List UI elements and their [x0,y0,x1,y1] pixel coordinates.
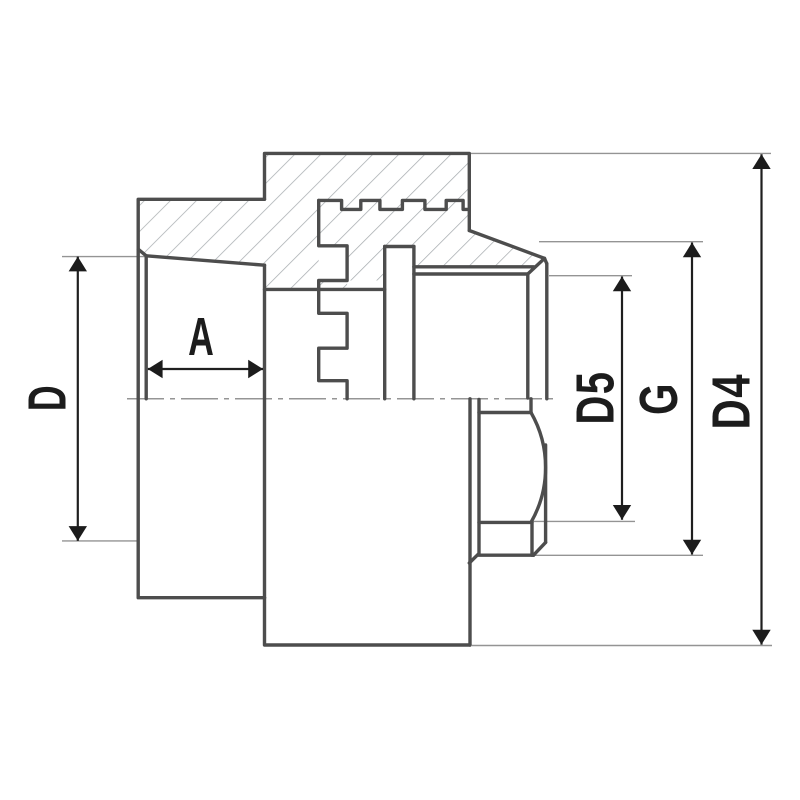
thread line upper [414,265,534,268]
groove strip cap [385,245,414,248]
svg-text:G: G [629,383,689,415]
svg-text:D4: D4 [702,373,762,430]
arrow D5 up [613,277,631,292]
thread line lower [414,272,528,275]
extension line D top [62,256,146,258]
hatch brass insert section [319,211,545,281]
hatch left socket wall [138,199,264,265]
extension line G top [539,241,703,243]
left socket bore chamfer [138,249,146,256]
arrow D5 down [613,505,631,520]
insert left knurl zigzag [319,200,347,398]
arrow A left [148,360,163,378]
body socket stop step [263,265,266,598]
insert top knurl teeth [319,200,470,209]
external thread end chamfer [534,542,546,555]
face corner chamfer [545,258,547,263]
extension line G bottom [535,554,703,556]
external hex facet top edge [479,411,531,414]
groove strip right edge [412,247,415,399]
arrow G down [683,540,701,555]
svg-text:D5: D5 [566,370,626,424]
extension line D4 bottom [472,645,772,647]
body chamfer diagonal [469,231,544,259]
arrow D4 up [752,154,770,169]
insert face vertical [545,264,548,399]
extension line D bottom [62,540,139,542]
arrow G up [683,243,701,258]
body outline top half [265,153,470,230]
svg-text:A: A [188,307,214,367]
dimension line A [148,368,263,370]
dimension line D5 [621,277,623,520]
external bottom face line [479,554,534,557]
external hex lower facet right edge [530,522,533,555]
arrow D4 down [752,630,770,645]
dimension line D [77,257,79,541]
external body face edge [468,399,471,645]
left socket bore vertical [144,256,147,399]
arrow D up [69,257,87,272]
dimension line G [691,243,693,555]
left socket bore taper line [146,256,264,265]
svg-text:D: D [17,385,77,411]
thread entry chamfer [528,258,545,274]
external hex corner stub [529,399,532,413]
arrow D down [69,526,87,541]
arrow A right [248,360,263,378]
extension line D4 top [471,152,771,154]
groove strip left edge [383,247,386,399]
dimension line D4 [760,154,762,644]
external hex chamfer arc [531,413,546,523]
body inner bore line [265,288,385,291]
body outline bottom half [265,598,471,645]
hatch band under pocket [319,281,347,290]
centerline [127,398,554,400]
hatch body top band and left column [265,153,470,289]
external collar edge with bevel [469,400,479,564]
external thread OD vertical [544,445,547,542]
external hex facet bottom edge [479,521,532,524]
left socket outline [138,199,264,597]
thread inner vertical [526,274,529,398]
extension line D5 top [549,275,632,277]
extension line D5 bottom [533,520,635,522]
